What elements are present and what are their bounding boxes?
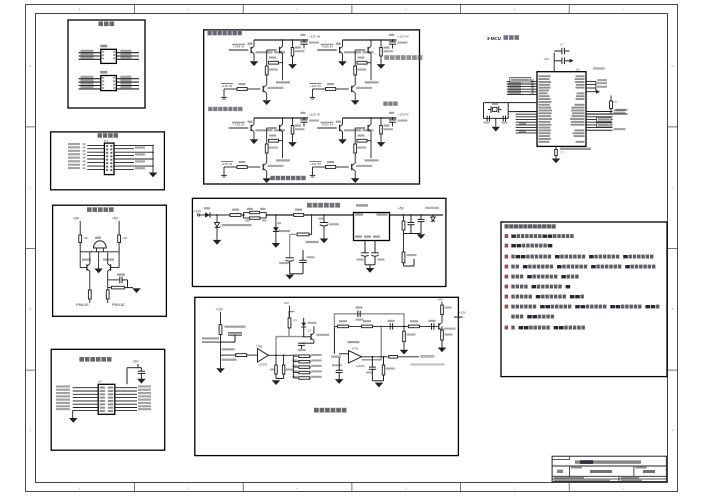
wire Q3A base xyxy=(229,127,249,129)
label C51 ref xyxy=(319,218,324,220)
label Q2A ref xyxy=(336,121,341,123)
wire R34 bottom xyxy=(107,299,109,303)
wire Q61 links xyxy=(302,326,314,343)
wire U11 left pin 3 xyxy=(79,58,101,60)
wires U1 right top pins xyxy=(586,81,596,91)
wire U71 right pin 7 xyxy=(115,407,137,409)
label R51 xyxy=(247,208,253,210)
label: threshold title xyxy=(314,408,346,413)
wire Q5A emitter xyxy=(342,54,344,62)
wire RC loop xyxy=(108,280,133,288)
capacitor C67 xyxy=(432,323,434,329)
capacitor C52 electrolytic xyxy=(286,258,294,261)
wire U12 right pin 2 xyxy=(116,81,139,83)
label U71 right pin 7 xyxy=(138,405,151,407)
resistor R55 xyxy=(403,234,405,253)
wire rail channel 3 xyxy=(254,117,308,119)
wire Q32 collector xyxy=(107,252,109,264)
svg-text:R?: R? xyxy=(614,100,618,104)
label U12 right pin 2 xyxy=(120,79,131,81)
frame zone numbers bottom xyxy=(79,488,624,491)
label R3D ref xyxy=(295,125,301,127)
junction out2 xyxy=(283,354,285,356)
wire lower left channel 2 xyxy=(313,166,326,168)
title block row2 verticals xyxy=(570,466,634,476)
capacitor C62 xyxy=(298,343,305,345)
pin number U11 L1 xyxy=(102,51,104,53)
ground Q2A emitter xyxy=(338,139,347,144)
transistor Q4A xyxy=(251,46,254,53)
label R6L1 ref xyxy=(292,354,298,356)
overline TXD channel 3 xyxy=(232,121,245,123)
label R3B xyxy=(269,135,276,137)
IC U71 body xyxy=(98,384,115,414)
label R3C value xyxy=(269,147,278,149)
label: channel-switch title xyxy=(79,357,111,362)
junction out4 xyxy=(432,214,434,216)
labels right lower ends xyxy=(614,109,626,130)
wire R62 to opamp xyxy=(247,354,258,356)
svg-text:C?: C? xyxy=(561,150,565,154)
label C69 xyxy=(332,364,342,366)
gray bus left xyxy=(276,312,302,356)
inductor L51 xyxy=(230,214,241,217)
label C51 value xyxy=(398,42,408,44)
label U71 right pin 5 xyxy=(138,399,151,401)
wire rail channel 4 xyxy=(254,39,308,41)
frame zone ticks left-right xyxy=(26,127,678,370)
ground left xyxy=(216,368,225,373)
label C31 xyxy=(117,274,125,276)
wire R67 bottom xyxy=(441,315,443,323)
wire R5A to base xyxy=(336,88,349,90)
label comp note gray xyxy=(411,363,445,365)
label J1 left pin 2 xyxy=(68,146,80,148)
wire U12 right pin 4 xyxy=(116,88,139,90)
svg-text:U?A: U?A xyxy=(352,347,358,351)
svg-text:+12V IN: +12V IN xyxy=(310,84,321,88)
wire Q5B emitter long xyxy=(370,54,372,81)
junction Q2B rail xyxy=(370,117,372,119)
label U71 left pin 4 xyxy=(56,395,70,397)
label: channel-4 transmit title xyxy=(208,31,242,35)
label +5V pullup xyxy=(616,109,628,111)
wire cap drop 2 xyxy=(283,355,285,365)
wire R3D top xyxy=(292,118,294,126)
wire divider drop channel 5 xyxy=(354,63,356,66)
svg-text:C?: C? xyxy=(560,43,564,47)
capacitor C56 xyxy=(408,215,415,234)
label J1 right pin 4 xyxy=(135,153,145,155)
inductor L52 xyxy=(294,214,304,217)
label: pin-header title xyxy=(98,133,119,138)
capacitor C11 xyxy=(487,116,489,122)
wire L51 to pair xyxy=(241,214,245,216)
IC U11 body xyxy=(101,49,117,63)
label U71 right pin 3 xyxy=(138,392,151,394)
label: buzzer-driver title xyxy=(87,207,114,212)
ground R69 xyxy=(400,350,409,355)
svg-text:6: 6 xyxy=(79,488,81,491)
wire U71 left pin 7 xyxy=(73,407,99,409)
label R4C value xyxy=(269,69,278,71)
label D61 xyxy=(308,322,317,324)
U1 left pin ticks xyxy=(531,79,534,94)
label C65 value xyxy=(356,319,364,321)
label LED boxed xyxy=(510,78,531,82)
label R4A ref xyxy=(239,83,246,85)
label Q5A type xyxy=(344,51,361,53)
label Q3A type xyxy=(256,129,273,131)
resistor R53 xyxy=(297,233,309,236)
wire J1 left pin 6 xyxy=(87,162,104,164)
title block row1 separator xyxy=(552,465,666,467)
wire C71 gnd stem xyxy=(140,373,142,378)
wire R3B right xyxy=(279,140,283,142)
ground U71 left xyxy=(69,418,78,423)
U1 left pin names xyxy=(539,75,553,142)
svg-text:10K: 10K xyxy=(122,236,127,240)
label: channel-5 transmit title xyxy=(384,55,422,60)
label U71 left pin 7 xyxy=(56,405,70,407)
junction out3 xyxy=(420,214,422,216)
capacitor C31 xyxy=(120,277,122,284)
label SGND channel 3 xyxy=(276,159,290,161)
label C51 value xyxy=(329,223,339,225)
pin number U12 L3 xyxy=(102,84,104,86)
title block row2 texts xyxy=(557,470,655,473)
port circle input xyxy=(198,214,200,216)
svg-text:+5V: +5V xyxy=(133,360,140,364)
label D54 ref xyxy=(277,222,281,224)
resistor R6C body xyxy=(382,365,385,375)
wire sub-branch drop xyxy=(311,215,313,234)
svg-text:+5V: +5V xyxy=(112,217,119,221)
wire rail channel 5 xyxy=(343,39,397,41)
pin number J1 left 5 xyxy=(83,157,86,159)
wire U12 left pin 2 xyxy=(79,81,101,83)
wire U71 left pin 3 xyxy=(73,393,99,395)
svg-text:+12V IN: +12V IN xyxy=(310,162,321,166)
label J1 left pin 3 xyxy=(68,150,80,152)
junction R2D rail xyxy=(380,117,382,119)
resistor R5B xyxy=(357,61,367,64)
wire center ground stem xyxy=(98,252,100,269)
label notes title xyxy=(505,224,556,228)
junction gray drop xyxy=(380,326,382,328)
svg-text:+12V IN: +12V IN xyxy=(398,34,409,38)
pin number U12 R3 xyxy=(113,84,115,86)
wire opamp2 inputs xyxy=(334,326,348,353)
resistor R3C xyxy=(265,144,268,153)
IC U11 ref label xyxy=(100,45,107,48)
label U12 left pin 2 xyxy=(81,79,94,81)
label R6L4 net xyxy=(311,370,322,372)
arrow right top bus xyxy=(596,90,600,94)
capacitor C21 xyxy=(389,118,396,127)
wire J1 left pin 4 xyxy=(87,155,104,157)
transistor Q3B xyxy=(280,124,283,131)
label J1 left pin 4 xyxy=(68,153,80,155)
resistor R54 xyxy=(402,221,405,230)
wire zener to gnd xyxy=(275,231,277,243)
junction below output 1 xyxy=(372,356,374,358)
label C53 xyxy=(307,256,315,258)
capacitor C53 xyxy=(299,260,306,262)
wire Q3B emitter long xyxy=(282,132,284,159)
notes line 8 wrap xyxy=(511,315,554,319)
wire crystal gnd xyxy=(495,118,497,126)
resistor R66 xyxy=(408,325,419,328)
label R2C value xyxy=(357,147,366,149)
svg-text:+12V IN: +12V IN xyxy=(221,84,232,88)
wire R69 stem xyxy=(403,326,405,331)
svg-text:C: C xyxy=(672,186,674,189)
wire lower left channel 3 xyxy=(224,166,237,168)
wire R4C to Q4C xyxy=(266,75,268,85)
resistor R4A xyxy=(237,88,247,91)
pin number J1 left 6 xyxy=(83,160,86,162)
label U71 right pin 4 xyxy=(138,395,151,397)
labels U1 left top xyxy=(508,82,521,95)
wire ladder right stubs xyxy=(310,356,311,378)
wire right supply xyxy=(118,221,120,235)
label R6C xyxy=(386,368,395,370)
label C41 ref xyxy=(301,34,306,36)
svg-text:C: C xyxy=(29,186,31,189)
label R52 top xyxy=(260,208,266,210)
buzzer LS1 xyxy=(91,241,107,254)
capacitor C69 left xyxy=(336,358,343,380)
label C21 ref xyxy=(389,112,394,114)
label R61 pack xyxy=(225,326,246,328)
label R5B xyxy=(358,57,365,59)
resistor R2C xyxy=(354,144,357,153)
label threshold-out gray xyxy=(420,355,434,358)
label R6L2 net xyxy=(311,359,322,361)
wire base link channel 3 xyxy=(267,127,277,129)
overline +12V lower channel 2 xyxy=(310,161,322,163)
ground caps pair xyxy=(272,380,281,385)
ground R4D xyxy=(288,64,297,69)
pin number U12 L2 xyxy=(102,80,104,82)
wire R5D bottom xyxy=(380,56,382,64)
resistor R32 xyxy=(118,235,121,243)
ground TVS xyxy=(213,240,222,245)
wire U12 left pin 3 xyxy=(79,85,101,87)
transistor Q61 xyxy=(311,333,314,340)
wire U12 left pin 1 xyxy=(79,78,101,80)
wire J1 left pin 1 xyxy=(87,144,104,146)
wire R6C bottom xyxy=(372,375,383,381)
wire R3A to base xyxy=(247,166,260,168)
wire J1 right bus vertical xyxy=(152,145,154,172)
ground C69 xyxy=(335,379,344,384)
wire input xyxy=(200,214,205,216)
overline +12V lower channel 3 xyxy=(221,161,233,163)
label R2D ref xyxy=(384,125,390,127)
wire Q2C emitter xyxy=(354,171,356,179)
pin number U12 L4 xyxy=(102,87,104,89)
wire R5D top xyxy=(380,40,382,48)
wire left supply xyxy=(79,221,81,235)
label: ultrasonic transmit title xyxy=(270,176,305,180)
wire opamp1 output xyxy=(268,354,292,356)
label C31 ref xyxy=(301,112,306,114)
wire base link channel 2 xyxy=(355,127,365,129)
resistor R2D xyxy=(380,126,383,135)
wire J1 right pin 1 to bus xyxy=(114,144,153,146)
capacitor C14 xyxy=(554,58,569,65)
pin number U12 L1 xyxy=(102,77,104,79)
label J1 left pin 1 xyxy=(68,143,80,145)
junction sub-branch xyxy=(311,214,313,216)
resistor R6L4 xyxy=(299,371,310,374)
svg-text:1: 1 xyxy=(622,488,624,491)
label U71 right pin 6 xyxy=(138,402,151,404)
wire R11 top xyxy=(610,96,612,102)
wire divider drop channel 2 xyxy=(354,141,356,144)
label U11 right pin 2 xyxy=(120,53,131,55)
label Q2A type xyxy=(344,129,361,131)
resistor R2A xyxy=(326,166,336,169)
wire lower gnd stem channel 5 xyxy=(312,89,314,97)
label U11 right pin 1 xyxy=(120,50,131,52)
junction out1 xyxy=(403,214,405,216)
capacitor C61 T xyxy=(221,333,243,342)
box: channel-transmit enclosure xyxy=(204,30,420,184)
notes line 4 xyxy=(505,265,656,269)
resistor R34 xyxy=(106,290,109,299)
label LM358 left xyxy=(222,359,237,361)
wire +5V drop xyxy=(127,364,141,384)
frame zone letters left xyxy=(29,65,31,433)
wire base link channel 4 xyxy=(267,49,277,51)
label C11 xyxy=(484,122,490,124)
label: MCU section title cn xyxy=(504,35,520,40)
ground R5D xyxy=(377,64,386,69)
pin number J1 left 7 xyxy=(83,164,86,166)
label U12 left pin 3 xyxy=(81,83,94,85)
capacitor C51 xyxy=(389,40,396,49)
diode D61 xyxy=(301,318,306,331)
wire Q3C emitter xyxy=(266,171,268,179)
wire R4D top xyxy=(292,40,294,48)
box: buzzer-driver enclosure xyxy=(53,205,167,316)
wire out1 drop xyxy=(403,215,405,221)
capacitor C65 on feedback xyxy=(358,311,360,317)
pin number U12 R2 xyxy=(113,80,115,82)
svg-text:+5V: +5V xyxy=(284,301,289,305)
junction zener tap xyxy=(275,214,277,216)
label: programming-port title xyxy=(99,22,115,27)
wire U11 left pin 1 xyxy=(79,52,101,54)
label Q2C type xyxy=(356,165,372,167)
wire R2D top xyxy=(380,118,382,126)
wires U1 left top pins xyxy=(507,81,537,94)
label R2B xyxy=(358,135,365,137)
svg-text:U7: U7 xyxy=(98,380,102,384)
label QA ref xyxy=(222,348,235,350)
label R64 xyxy=(339,320,347,322)
svg-text:+12V IN: +12V IN xyxy=(309,112,320,116)
notes line 7 xyxy=(505,295,584,299)
frame zone ticks top xyxy=(135,5,570,14)
wire opamp2 output xyxy=(362,356,389,358)
ground Q3C emitter xyxy=(262,178,271,183)
label U71 left pin 5 xyxy=(56,399,70,401)
resistor R63 xyxy=(288,318,291,328)
ground bar lower channel 5 xyxy=(310,97,316,99)
box: threshold enclosure xyxy=(195,297,459,455)
svg-text:2: 2 xyxy=(514,9,516,12)
svg-text:2: 2 xyxy=(514,488,516,491)
svg-text:+5V: +5V xyxy=(398,207,405,211)
resistor R65 xyxy=(362,325,373,328)
svg-text:5: 5 xyxy=(188,9,190,12)
label U51 ref xyxy=(356,204,368,206)
label J1 right pin 8 xyxy=(135,167,145,169)
label Q5C type xyxy=(356,87,372,89)
wire caps to gnd rail xyxy=(365,257,375,268)
label U11 left pin 1 xyxy=(81,50,94,52)
label Q2B type xyxy=(363,129,374,131)
label U71 right pin 2 xyxy=(138,389,151,391)
junction Q5B rail xyxy=(370,39,372,41)
label U71 left pin 3 xyxy=(56,392,70,394)
wire RC tap xyxy=(108,279,119,281)
wire J1 left pin 8 xyxy=(87,168,104,170)
wire R69 bottom xyxy=(403,342,405,350)
ground Q5A emitter xyxy=(338,61,347,66)
label C67 xyxy=(429,320,436,322)
wire +12V drop xyxy=(220,312,222,325)
label U11 left pin 3 xyxy=(81,56,94,58)
label U12 right pin 4 xyxy=(120,86,131,88)
svg-text:5: 5 xyxy=(188,488,190,491)
wire U11 left pin 2 xyxy=(79,55,101,57)
wire R3C to Q3C xyxy=(266,153,268,163)
transistor Q62 xyxy=(439,323,442,330)
svg-text:4: 4 xyxy=(296,9,298,12)
wire U71 right pin 1 xyxy=(115,387,137,389)
wire Q31 emitter xyxy=(89,271,91,290)
op-amp U6A xyxy=(349,351,362,363)
wire Q32 base xyxy=(111,267,120,269)
label threshold-in gray xyxy=(331,355,341,358)
svg-text:3: 3 xyxy=(405,9,407,12)
svg-text:Q?: Q? xyxy=(308,328,312,332)
capacitor C55 electrolytic xyxy=(371,253,379,256)
notes line 6 xyxy=(505,285,571,289)
regulator U51 body xyxy=(354,213,390,241)
label U12 right pin 3 xyxy=(120,83,131,85)
wire caps join xyxy=(276,374,284,379)
label R6L1 net xyxy=(311,354,322,356)
resistor R6C xyxy=(383,357,385,365)
ground crystal xyxy=(492,127,501,132)
capacitor C63 body xyxy=(275,365,278,374)
label Y1 xyxy=(492,103,498,105)
wire R2B right xyxy=(367,140,371,142)
resistor pair R51 R52 xyxy=(241,211,266,219)
wire Q3B collector xyxy=(282,118,284,124)
svg-text:+12V: +12V xyxy=(194,210,202,214)
MCU U1 body xyxy=(537,72,586,147)
ground bar lower channel 4 xyxy=(221,97,227,99)
capacitor C68 xyxy=(369,357,376,381)
wire J1 left pin 2 xyxy=(87,148,104,150)
